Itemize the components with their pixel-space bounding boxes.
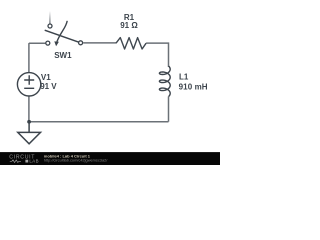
V1 minus sign [24,87,34,89]
wire: bottom horizontal [29,121,169,123]
CircuitLab logo LAB [25,160,28,163]
wire: SW1 top throw going up (fades at top) [49,10,51,24]
resistor R1 zigzag [116,38,146,49]
SW1 left terminal circle [46,41,50,45]
svg-text:LAB: LAB [29,159,39,164]
inductor L1 coil [159,66,170,96]
svg-text:http://circuitlab.com/c42jgwem: http://circuitlab.com/c42jgwemsc3a2/ [44,158,108,163]
SW1 actuator arrow arc [57,21,67,42]
wire: left vertical down to V1 top [28,43,30,72]
SW1 top throw terminal circle [48,24,52,28]
V1 circle [17,73,40,96]
svg-text:910 mH: 910 mH [179,82,208,91]
wire: V1 bottom to ground junction [28,96,30,122]
CircuitLab logo zigzag [10,160,21,163]
SW1 right terminal circle [79,41,83,45]
ground junction dot [27,120,31,124]
voltage source V1 [17,73,40,96]
svg-text:91 V: 91 V [40,82,57,91]
svg-text:L1: L1 [179,72,189,81]
SW1 blade [45,30,79,42]
svg-text:V1: V1 [41,73,51,82]
wire: top-left horizontal from V1 branch to SW1 left terminal [29,42,46,44]
switch SW1 [46,24,83,45]
ground [18,122,41,144]
wire: L1 bottom to bottom-right corner [168,97,170,122]
SW1 arrowhead [54,41,59,46]
wire: SW1 right terminal to R1 [83,42,116,44]
svg-text:SW1: SW1 [54,51,72,60]
footer bar [0,152,220,165]
svg-text:91 Ω: 91 Ω [120,21,138,30]
V1 plus sign [24,75,34,85]
wire: R1 right to top-right corner and down to L1 [146,43,168,67]
